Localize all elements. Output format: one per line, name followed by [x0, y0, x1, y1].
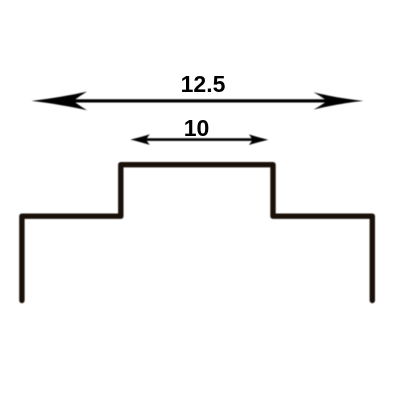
svg-text:12.5: 12.5: [181, 71, 226, 97]
svg-text:10: 10: [184, 115, 210, 141]
